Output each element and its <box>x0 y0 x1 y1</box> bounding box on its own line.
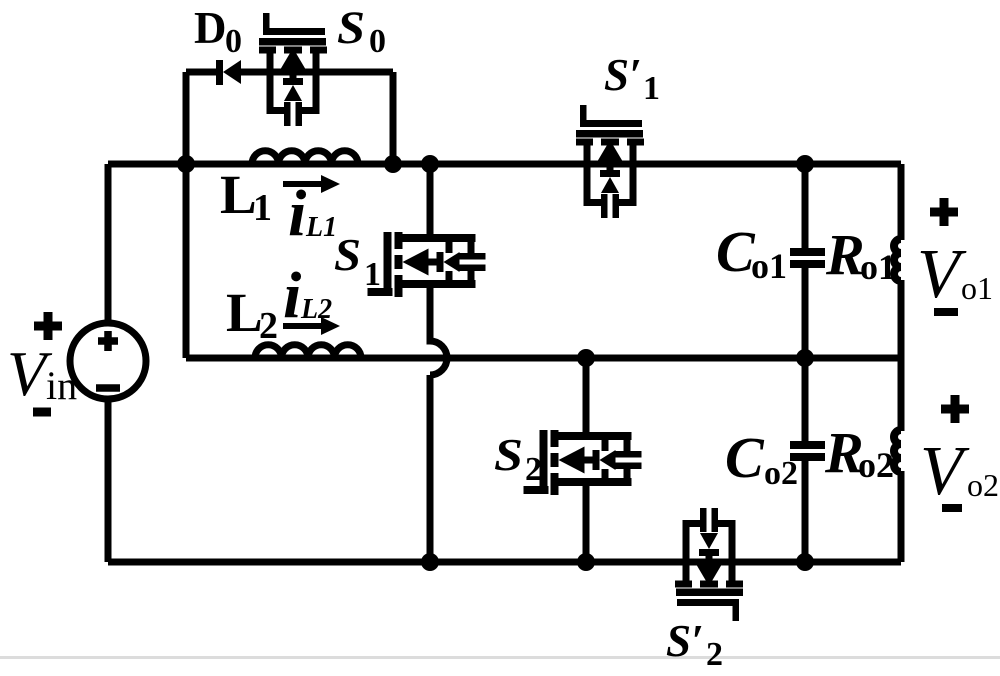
transistor S1 <box>368 198 486 326</box>
Vin external plus <box>34 312 62 340</box>
Vo1 plus <box>930 198 958 226</box>
current arrow iL2 <box>283 317 340 335</box>
Vin external minus <box>33 408 51 417</box>
wire S1 source with hop over middle rail <box>430 289 447 562</box>
node at 393,164 <box>384 155 402 173</box>
capacitor Co2 <box>790 441 825 461</box>
node at 586,562 <box>577 553 595 571</box>
svg-text:S: S <box>494 430 523 480</box>
wire right rail with resistor gaps <box>898 164 905 562</box>
node at 805,358 <box>796 349 814 367</box>
svg-text:1: 1 <box>253 187 272 229</box>
svg-text:o2: o2 <box>764 455 798 492</box>
wire S2 source <box>583 480 590 562</box>
node dots <box>177 155 814 571</box>
svg-text:L2: L2 <box>300 294 332 325</box>
wire S1 drain <box>427 164 434 236</box>
svg-text:i: i <box>288 177 307 250</box>
capacitor Co1 <box>790 248 825 268</box>
svg-text:S′: S′ <box>666 616 704 666</box>
wire left branch from Vin <box>105 164 112 562</box>
source Vin circle <box>70 323 146 399</box>
svg-text:2: 2 <box>706 636 723 673</box>
wire Co1 branch <box>802 164 809 358</box>
Vo1 minus <box>934 308 958 316</box>
decorative bottom strip <box>0 656 1000 659</box>
svg-text:L1: L1 <box>305 212 337 243</box>
svg-text:o2: o2 <box>858 445 894 485</box>
svg-text:2: 2 <box>259 305 278 347</box>
node at 805,562 <box>796 553 814 571</box>
svg-text:o1: o1 <box>751 246 787 286</box>
svg-text:V: V <box>917 236 967 313</box>
inductor L2 <box>255 345 361 358</box>
transistor S'1 <box>576 105 644 218</box>
svg-text:1: 1 <box>364 256 381 293</box>
svg-text:L: L <box>226 282 263 343</box>
node at 430,562 <box>421 553 439 571</box>
svg-text:2: 2 <box>525 451 542 488</box>
wire top rail <box>108 161 901 168</box>
wire node A vertical x186 <box>183 164 190 358</box>
node at 805,164 <box>796 155 814 173</box>
wire S2 drain <box>583 358 590 436</box>
svg-text:o2: o2 <box>967 467 999 503</box>
svg-text:i: i <box>283 259 302 332</box>
Vo2 minus <box>942 504 962 512</box>
source Vin polarity marks inside <box>96 331 120 388</box>
transistor S2 <box>524 396 642 524</box>
inductor L1 <box>252 151 358 164</box>
svg-text:C: C <box>725 425 765 490</box>
transistor S'2 <box>675 508 743 621</box>
resistor Ro2 <box>894 430 901 472</box>
wire Co2 branch <box>802 358 809 562</box>
svg-text:o1: o1 <box>961 270 993 306</box>
svg-text:in: in <box>46 363 77 408</box>
svg-text:0: 0 <box>225 23 242 60</box>
svg-text:R: R <box>825 222 865 287</box>
resistor Ro1 <box>894 239 901 281</box>
node at 430,164 <box>421 155 439 173</box>
Vo2 plus <box>941 395 969 423</box>
svg-text:D: D <box>194 3 227 53</box>
current arrow iL1 <box>283 175 340 193</box>
svg-text:0: 0 <box>369 23 386 60</box>
node at 586,358 <box>577 349 595 367</box>
svg-text:S: S <box>337 2 365 54</box>
wire D0-S0 loop <box>186 72 393 164</box>
svg-text:C: C <box>716 219 756 284</box>
svg-text:1: 1 <box>643 70 660 107</box>
diode D0 <box>216 60 241 85</box>
svg-text:S: S <box>334 230 361 280</box>
svg-text:S′: S′ <box>604 50 642 100</box>
transistor S0 <box>259 13 327 126</box>
svg-text:L: L <box>220 164 257 225</box>
wire bottom rail <box>108 559 901 566</box>
wire middle rail <box>186 355 901 362</box>
node at 186,164 <box>177 155 195 173</box>
svg-text:o1: o1 <box>860 247 896 287</box>
svg-text:V: V <box>920 433 970 510</box>
